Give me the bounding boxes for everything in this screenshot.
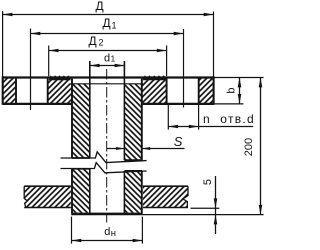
svg-text:S: S [174, 134, 183, 149]
svg-text:5: 5 [202, 179, 214, 185]
svg-text:Д: Д [89, 34, 97, 48]
svg-text:d: d [104, 226, 110, 238]
svg-text:d: d [104, 52, 110, 64]
svg-text:2: 2 [99, 38, 104, 48]
svg-text:Д: Д [96, 0, 104, 13]
svg-text:1: 1 [112, 20, 117, 30]
svg-text:b: b [226, 87, 238, 93]
svg-text:200: 200 [243, 138, 255, 156]
svg-text:Д: Д [103, 16, 111, 30]
svg-text:н: н [111, 228, 116, 239]
svg-text:1: 1 [111, 53, 116, 63]
svg-text:n отв.d: n отв.d [203, 112, 255, 126]
